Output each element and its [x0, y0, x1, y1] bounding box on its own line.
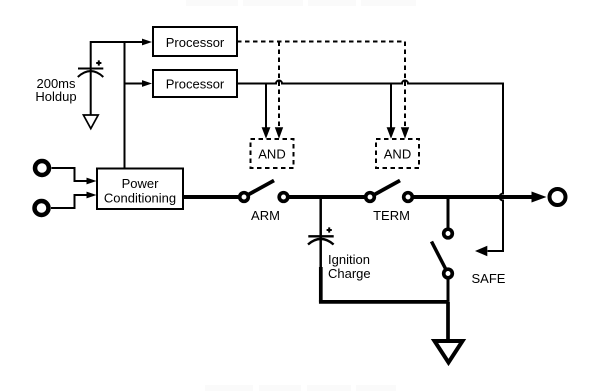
faint cropped text bottom edge: [205, 385, 396, 391]
wire: SAFE bottom to rail: [447, 274, 450, 302]
switch TERM contact right: [404, 193, 413, 202]
svg-text:Processor: Processor: [166, 77, 225, 92]
wire: ignition return (thick): [319, 267, 323, 302]
svg-text:AND: AND: [384, 147, 411, 162]
arrowhead toward SAFE: [475, 246, 487, 256]
wire: main power bus (thick): [183, 195, 244, 199]
wire: bus ARM to TERM (thick): [284, 195, 371, 199]
svg-text:AND: AND: [258, 147, 285, 162]
dashed wire down to AND2: [404, 42, 406, 129]
capacitor C1 200ms Holdup: [78, 60, 104, 77]
Power Conditioning box: [97, 169, 183, 210]
wire: Processor U2 output with hops: [237, 81, 503, 252]
ground (holdup cap): [83, 115, 98, 129]
arrowhead into Processor U2: [142, 80, 152, 87]
input terminal circle 2: [35, 201, 49, 215]
svg-text:Charge: Charge: [328, 266, 371, 281]
switch SAFE contact bottom: [444, 269, 453, 278]
output terminal circle: [550, 189, 566, 205]
svg-text:Conditioning: Conditioning: [104, 191, 176, 206]
arrowhead to output terminal: [532, 192, 547, 203]
capacitor C2 ignition charge: [308, 227, 334, 244]
switch ARM contact left: [240, 193, 249, 202]
wire: solid arrow into AND1: [265, 84, 267, 129]
wire: input 1 to Power Conditioning: [52, 168, 89, 181]
wire: bus TERM to output (thick): [408, 195, 533, 199]
AND gate box 1: [251, 139, 294, 168]
svg-text:Processor: Processor: [166, 35, 225, 50]
wire: bottom return rail (thick): [319, 300, 448, 304]
Processor U2 box: [153, 70, 237, 97]
switch TERM blade: [370, 181, 400, 198]
Processor U1 box: [153, 27, 237, 56]
switch ARM contact right: [279, 193, 288, 202]
svg-text:Ignition: Ignition: [328, 252, 370, 267]
input terminal circle 1: [35, 161, 49, 175]
dashed wire down to AND1: [278, 42, 280, 129]
switch SAFE blade: [432, 242, 449, 274]
svg-text:SAFE: SAFE: [472, 271, 506, 286]
svg-text:Power: Power: [122, 176, 160, 191]
svg-text:TERM: TERM: [373, 208, 410, 223]
wire: SAFE branch from bus: [447, 197, 450, 234]
switch TERM contact left: [366, 193, 375, 202]
ground (main): [435, 341, 463, 363]
wire: solid arrow into AND2: [390, 84, 392, 129]
wire: rail to ground: [446, 302, 450, 340]
svg-text:Holdup: Holdup: [35, 89, 76, 104]
arrowhead into Processor U1: [142, 39, 152, 46]
svg-text:ARM: ARM: [251, 208, 280, 223]
switch SAFE contact top: [444, 229, 453, 238]
wire: holdup cap top wire and rail to processors: [91, 42, 144, 168]
dashed net: Processor U1 output: [237, 41, 405, 43]
faint cropped text top edge: [186, 0, 416, 6]
wire: ignition charge branch: [319, 197, 322, 268]
switch ARM blade: [244, 181, 274, 198]
AND gate box 2: [376, 139, 419, 168]
wire: input 2 to Power Conditioning: [51, 195, 88, 208]
